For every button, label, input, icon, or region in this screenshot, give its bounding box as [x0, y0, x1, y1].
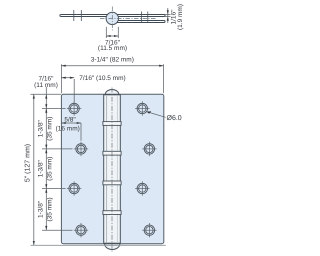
svg-text:(11 mm): (11 mm): [34, 82, 58, 89]
svg-text:7/16" (10.5 mm): 7/16" (10.5 mm): [79, 75, 125, 82]
svg-text:(35 mm): (35 mm): [47, 197, 54, 221]
svg-text:(11.5 mm): (11.5 mm): [98, 45, 127, 52]
svg-text:1-3/8": 1-3/8": [38, 159, 45, 177]
svg-text:(35 mm): (35 mm): [47, 117, 54, 141]
svg-text:5" (127 mm): 5" (127 mm): [24, 144, 32, 182]
svg-text:(16 mm): (16 mm): [56, 125, 80, 132]
svg-text:3-1/4" (82 mm): 3-1/4" (82 mm): [91, 57, 134, 64]
svg-text:(1.9 mm): (1.9 mm): [177, 4, 184, 30]
svg-text:5/8": 5/8": [64, 116, 76, 123]
svg-text:Ø6.0: Ø6.0: [167, 114, 182, 122]
svg-text:1-3/8": 1-3/8": [38, 200, 45, 218]
svg-text:1-3/8": 1-3/8": [38, 119, 45, 137]
svg-text:(35 mm): (35 mm): [47, 157, 54, 181]
